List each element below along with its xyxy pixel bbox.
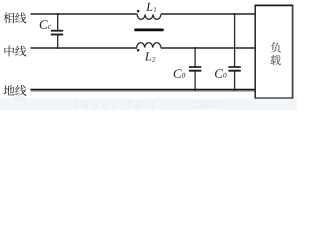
watermark band [0,98,297,110]
watermark text [76,99,78,108]
net label 相线 (phase) [4,13,27,24]
capacitor C0a lead lower [194,71,196,90]
capacitor C0b lead lower [234,71,236,90]
junction phase/C0b [234,13,236,15]
load text 载 [270,55,281,65]
wire neutral line segment left [31,47,138,49]
inductor L2 coil [137,43,161,48]
watermark smudge [13,96,26,101]
label C0b [215,69,227,78]
wire ground line soft lower edge [31,90,256,92]
capacitor C0a lead upper [194,48,196,67]
net label 中线 (neutral) [4,46,26,57]
inductor L1 coil [137,14,161,19]
inductor L2 polarity dot [137,49,140,52]
capacitor Cc lead upper [57,14,59,31]
magnetic core bar [134,29,163,32]
inductor L1 polarity dot [137,10,140,13]
label L2 [145,52,156,61]
label L1 [146,3,156,12]
label C0a [174,69,186,78]
junction phase/Cc [57,13,59,15]
junction ground/C0b [234,89,236,91]
watermark text 2 [194,102,200,109]
capacitor C0b plates [228,67,240,71]
load box rectangle [255,5,292,99]
capacitor Cc lead lower [57,35,59,49]
net label 地线 (earth) [4,85,27,96]
wire neutral line segment right [161,47,255,49]
wire phase line segment right [161,13,255,15]
capacitor C0b lead upper (crosses neutral, no junction) [234,14,236,67]
capacitor Cc plates [51,31,63,35]
junction neutral/Cc [57,47,59,49]
junction ground/C0a [194,89,196,91]
wire ground line [31,89,256,91]
label Cc [40,20,51,29]
junction neutral/C0a [194,47,196,49]
capacitor C0a plates [189,67,201,71]
wire phase line segment left [31,13,138,15]
load text 负 [271,42,281,53]
